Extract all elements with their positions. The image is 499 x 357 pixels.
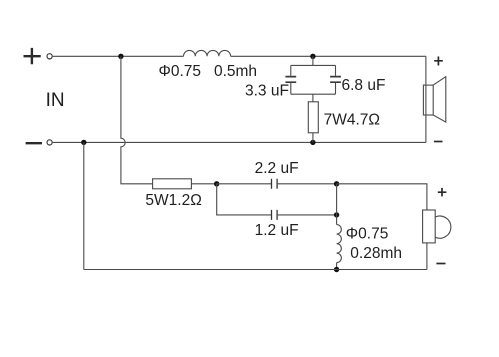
capacitor C2 6.8uF leads (335, 65, 337, 94)
capacitor bank top bus (291, 64, 336, 66)
capacitor C3 2.2uF plates (272, 179, 278, 189)
svg-text:2.2 uF: 2.2 uF (255, 160, 299, 177)
speaker tweeter dome (435, 216, 451, 238)
node junction top-cap (310, 54, 315, 59)
svg-text:3.3 uF: 3.3 uF (245, 83, 289, 100)
wire node to capacitor C3 (217, 183, 272, 185)
wire row1 to tweeter (337, 184, 427, 210)
inductor L1 0.5mh (184, 50, 231, 56)
terminal circle minus (47, 140, 52, 145)
resistor R1 7W4.7 lead top (312, 94, 314, 102)
svg-text:IN: IN (46, 90, 65, 111)
label woofer minus (434, 141, 443, 143)
wire top rail right (231, 55, 426, 57)
resistor R1 7W4.7 lead bottom (312, 133, 314, 143)
capacitor C2 6.8uF plates (330, 77, 341, 83)
capacitor C1 3.3uF plates (285, 77, 296, 83)
wire branch down to row2 (217, 184, 272, 215)
wire top rail left (53, 55, 184, 57)
label tweeter plus (438, 188, 447, 197)
node junction cap row1 (334, 181, 339, 186)
speaker woofer cone (433, 77, 446, 122)
inductor L2 0.28mh coil (337, 225, 342, 263)
wire between row nodes (336, 184, 338, 215)
wire capacitor C3 to node (277, 183, 337, 185)
speaker woofer frame (423, 85, 433, 115)
label tweeter minus (436, 263, 445, 265)
node junction bottom (334, 267, 339, 272)
terminal + input (24, 48, 41, 64)
svg-text:1.2 uF: 1.2 uF (255, 222, 299, 239)
node junction top-left (118, 54, 123, 59)
svg-text:Φ0.75: Φ0.75 (346, 226, 389, 243)
terminal circle plus (47, 54, 52, 59)
inductor L2 0.28mh lead top (336, 215, 338, 225)
svg-text:Φ0.75 0.5mh: Φ0.75 0.5mh (159, 63, 258, 80)
svg-text:5W1.2Ω: 5W1.2Ω (145, 192, 201, 209)
capacitor C4 1.2uF plates (272, 210, 278, 220)
resistor R2 5W1.2 body (153, 179, 192, 189)
wire midrail branch with hop (121, 56, 153, 184)
resistor R1 7W4.7 body (308, 102, 318, 133)
wire left vertical to bottom rail (83, 142, 85, 269)
terminal - input (26, 142, 42, 144)
speaker tweeter frame (423, 210, 436, 243)
inductor L2 0.28mh lead bottom (336, 263, 338, 270)
svg-text:6.8 uF: 6.8 uF (342, 77, 386, 94)
label woofer plus (434, 57, 443, 66)
capacitor C1 3.3uF leads (290, 65, 292, 94)
wire bottom rail (84, 269, 427, 271)
svg-text:7W4.7Ω: 7W4.7Ω (324, 112, 380, 129)
wire woofer vertical (425, 56, 427, 142)
node junction minus-left (81, 140, 86, 145)
wire capacitor C4 to node (277, 214, 337, 216)
svg-text:0.28mh: 0.28mh (350, 245, 402, 262)
capacitor bank stem top (312, 56, 314, 65)
wire tweeter bottom vertical (426, 243, 428, 270)
capacitor bank bottom bus (291, 93, 336, 95)
wire resistor R2 to node (191, 183, 216, 185)
node junction cap row2 (334, 212, 339, 217)
node junction mid (214, 181, 219, 186)
node junction resistor-bottom (310, 140, 315, 145)
wire minus rail (53, 141, 426, 143)
